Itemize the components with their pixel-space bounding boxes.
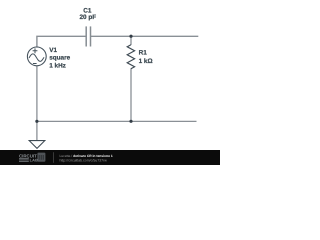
wire top from C1 to right edge: [91, 35, 198, 37]
wire V1 bottom lead: [36, 66, 38, 122]
wire bottom horizontal: [37, 120, 197, 122]
wire to ground: [36, 121, 38, 140]
svg-text:R1: R1: [139, 49, 148, 56]
svg-text:square: square: [49, 54, 70, 61]
voltage source V1: [27, 47, 46, 66]
svg-text:LAB: LAB: [30, 158, 39, 163]
node junction bottom right: [129, 120, 132, 123]
wire R1 top lead: [130, 36, 132, 45]
resistor R1: [127, 45, 134, 69]
svg-text:V1: V1: [49, 47, 57, 54]
svg-text:20 pF: 20 pF: [80, 14, 97, 21]
ground: [29, 141, 45, 149]
svg-text:1 kΩ: 1 kΩ: [139, 58, 153, 65]
node junction bottom left: [35, 120, 38, 123]
footer bar: [0, 150, 220, 165]
capacitor C1: [86, 26, 90, 46]
wire top from V1 to C1: [37, 36, 86, 47]
svg-text:Lucetta / derivare CR in tensi: Lucetta / derivare CR in tensione 1: [60, 154, 113, 158]
svg-text:http://circuitlab.com/c/5u737r: http://circuitlab.com/c/5u737rw: [60, 159, 108, 163]
svg-text:1 kHz: 1 kHz: [49, 62, 66, 69]
wire R1 bottom lead: [130, 69, 132, 122]
node junction top: [129, 35, 132, 38]
